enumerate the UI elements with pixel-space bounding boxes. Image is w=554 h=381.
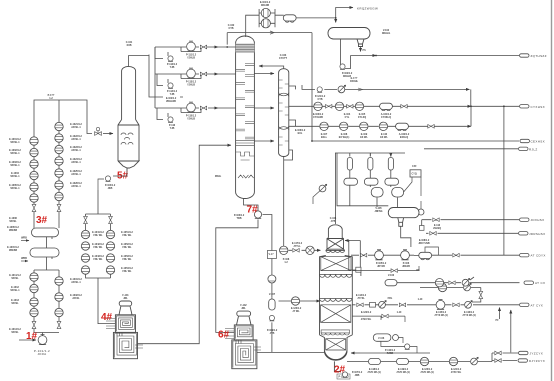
valve train A bottom xyxy=(32,321,36,328)
svg-text:KRQZWSGW: KRQZWSGW xyxy=(357,7,378,11)
svg-text:JYYX WL(1): JYYX WL(1) xyxy=(434,314,448,317)
svg-text:EXKLQ: EXKLQ xyxy=(400,136,408,139)
svg-text:7#: 7# xyxy=(247,205,259,216)
svg-text:JDEJB: JDEJB xyxy=(402,265,410,268)
svg-text:AR NL-1: AR NL-1 xyxy=(71,281,81,284)
wire line y287 top right xyxy=(420,287,481,289)
wire train row1 from stripper xyxy=(289,105,519,107)
column C-102 main tower xyxy=(236,36,255,198)
svg-text:EX WL: EX WL xyxy=(360,136,368,139)
svg-text:YJHLB: YJHLB xyxy=(187,84,195,87)
svg-text:CYL: CYL xyxy=(345,116,350,119)
valve train B bottom xyxy=(57,321,61,328)
svg-text:AR NL-1: AR NL-1 xyxy=(71,185,81,188)
svg-text:FRL WL: FRL WL xyxy=(94,234,104,237)
wire bottom product line y361 xyxy=(347,353,518,362)
svg-text:AR NL-1: AR NL-1 xyxy=(71,149,81,152)
wire line y219.7 to flag xyxy=(422,220,519,226)
exchanger train B circles xyxy=(55,122,63,130)
svg-text:FRL: FRL xyxy=(388,297,393,300)
labels train B right xyxy=(70,123,82,300)
svg-text:FRL WL: FRL WL xyxy=(94,258,104,261)
valve train A mid xyxy=(32,204,36,211)
column C-104 vacuum tower 2# xyxy=(320,225,353,372)
svg-text:3#: 3# xyxy=(36,215,48,226)
condenser drums E-111 E-112 xyxy=(371,188,403,198)
valve train B mid xyxy=(57,204,61,211)
wire column top to E-101 xyxy=(227,15,312,44)
labels steam drums xyxy=(7,217,19,252)
wire furnace6 outlet to column2 xyxy=(257,351,430,354)
pump group 3 xyxy=(155,74,236,120)
svg-text:ZQTHSZZ: ZQTHSZZ xyxy=(531,54,547,58)
air drum E-108 xyxy=(419,252,432,259)
svg-text:FRL WL: FRL WL xyxy=(123,258,133,261)
svg-text:V-107: V-107 xyxy=(269,293,276,296)
labels train A left xyxy=(9,138,21,334)
svg-text:XDLNB: XDLNB xyxy=(261,4,270,7)
svg-text:AR NL: AR NL xyxy=(72,297,80,300)
svg-text:YJHLB: YJHLB xyxy=(187,57,195,60)
junction dots xyxy=(470,105,472,107)
flag light ends xyxy=(520,54,530,57)
reflux drum V-102 xyxy=(328,28,370,47)
svg-text:JDFSG: JDFSG xyxy=(375,210,383,213)
svg-text:EXL: EXL xyxy=(298,132,303,135)
svg-text:FRL WL: FRL WL xyxy=(94,246,104,249)
drum V-108 hotwell xyxy=(373,334,391,341)
svg-text:CYB: CYB xyxy=(317,98,322,101)
svg-text:JDRSHSX: JDRSHSX xyxy=(529,232,545,236)
svg-text:JYZCYX: JYZCYX xyxy=(530,352,544,356)
wire quench line x271.9 xyxy=(263,215,272,298)
svg-text:JKB: JKB xyxy=(108,187,113,190)
svg-text:4#: 4# xyxy=(101,312,113,323)
pump P-103 7# column bottoms xyxy=(216,199,258,333)
pump P-102 reflux xyxy=(341,39,351,69)
svg-text:WRB: WRB xyxy=(21,237,27,240)
svg-text:AR NL-1: AR NL-1 xyxy=(71,161,81,164)
svg-text:CYXHSX: CYXHSX xyxy=(531,105,545,109)
wire line y316 stubs xyxy=(352,316,405,322)
svg-text:JYZC WL(1): JYZC WL(1) xyxy=(396,371,410,374)
wire line y233.3 to flag xyxy=(426,232,518,234)
wire riser x98 to split xyxy=(86,190,116,324)
wire line y149 to flag xyxy=(424,148,518,150)
svg-text:1-10: 1-10 xyxy=(397,311,402,314)
air cooler drum top xyxy=(283,15,296,22)
vertical utility line x503 xyxy=(503,106,505,255)
furnace F-101 4# xyxy=(113,301,137,359)
svg-text:AT CDYX: AT CDYX xyxy=(531,254,546,258)
svg-text:JYTLL: JYTLL xyxy=(293,245,301,248)
svg-text:PF: PF xyxy=(496,319,500,322)
svg-text:V-106: V-106 xyxy=(388,274,395,277)
svg-text:E-122/1.2: E-122/1.2 xyxy=(361,311,372,314)
wire long line y141 to flag xyxy=(312,33,519,141)
wire line y255 pumps from column2 xyxy=(351,254,519,256)
svg-text:JYZC WL: JYZC WL xyxy=(451,371,462,374)
svg-text:JSLNQ: JSLNQ xyxy=(433,227,441,230)
wire sampler connections xyxy=(404,177,421,210)
column C-101 5# flash tower xyxy=(118,66,139,172)
svg-text:ZDHLNB: ZDHLNB xyxy=(166,100,176,103)
svg-text:SR NL: SR NL xyxy=(11,331,19,334)
svg-text:YJB: YJB xyxy=(170,93,175,96)
level box small xyxy=(420,226,425,231)
side stripper C-103 triple xyxy=(279,69,289,157)
pump P-107 bottom xyxy=(342,372,347,378)
label P-101 xyxy=(34,349,50,356)
svg-text:JRL: JRL xyxy=(241,307,246,310)
wire reflux loop right of column2 neck xyxy=(345,241,361,277)
svg-text:EX WL: EX WL xyxy=(380,136,388,139)
wire drum interconnect xyxy=(34,237,59,277)
label C-101 top xyxy=(126,41,133,47)
svg-text:JYB: JYB xyxy=(270,332,275,335)
svg-text:JRL: JRL xyxy=(123,297,128,300)
pump P-104 below column5 xyxy=(98,172,127,190)
pump group 2 xyxy=(155,47,236,86)
svg-text:WRB: WRB xyxy=(21,257,27,260)
svg-text:RJLZ: RJLZ xyxy=(529,147,538,151)
labels trains C D xyxy=(92,231,133,273)
svg-text:SR NL: SR NL xyxy=(11,277,19,280)
svg-text:CYLXQ: CYLXQ xyxy=(358,116,366,119)
svg-text:JYYX WL(1): JYYX WL(1) xyxy=(462,314,476,317)
svg-text:SR NL-1: SR NL-1 xyxy=(10,152,20,155)
svg-text:AR NL-1: AR NL-1 xyxy=(71,138,81,141)
wire stripper bottoms E-117 into column2 xyxy=(284,247,321,250)
drain arrow from boot xyxy=(360,47,362,52)
wire column to stripper feeds xyxy=(254,73,274,75)
svg-text:CYCTT: CYCTT xyxy=(279,57,288,60)
steam out arrows xyxy=(21,241,29,262)
exchanger train A lower circles xyxy=(30,273,38,281)
svg-text:6#: 6# xyxy=(218,330,230,341)
svg-text:1-10: 1-10 xyxy=(418,298,423,301)
svg-text:JYZC WL(1): JYZC WL(1) xyxy=(420,371,434,374)
svg-text:YJB: YJB xyxy=(170,66,175,69)
wire vent line y270.6 xyxy=(352,266,419,271)
svg-text:ZBHL: ZBHL xyxy=(215,175,222,178)
pump P-101 1# xyxy=(38,335,47,345)
wire train row2 from column xyxy=(289,106,471,126)
svg-text:AR NL-1: AR NL-1 xyxy=(71,126,81,129)
ejector J-103 xyxy=(385,158,399,186)
wire slop line y301 into column2 xyxy=(279,300,321,302)
svg-text:CDXHL: CDXHL xyxy=(350,80,359,83)
svg-text:CYQ: CYQ xyxy=(412,173,417,176)
steam drum E-1005 upper xyxy=(32,228,59,239)
svg-text:AT CX: AT CX xyxy=(535,281,545,285)
svg-text:XXB: XXB xyxy=(127,44,132,47)
svg-text:AR NL-1: AR NL-1 xyxy=(71,173,81,176)
svg-text:PS: PS xyxy=(363,49,367,52)
wire pump P-106b right vertical small xyxy=(271,297,273,352)
svg-text:FRL WL: FRL WL xyxy=(123,246,133,249)
svg-text:ZRESB: ZRESB xyxy=(9,229,17,232)
wire products line y305 xyxy=(352,288,519,305)
svg-text:SR NL-1: SR NL-1 xyxy=(10,175,20,178)
svg-text:JYZC WL(1): JYZC WL(1) xyxy=(367,371,381,374)
svg-text:EXLL: EXLL xyxy=(321,136,328,139)
svg-text:SR NL-1: SR NL-1 xyxy=(10,141,20,144)
wire stripper overhead return xyxy=(254,66,295,247)
svg-text:JDYJB: JDYJB xyxy=(377,265,385,268)
exchanger train B lower circles xyxy=(55,277,63,285)
svg-text:JYEX WL: JYEX WL xyxy=(361,318,372,321)
instrument at column2 left xyxy=(319,184,327,192)
wire header to column 5 xyxy=(34,100,92,134)
svg-text:EX WL(1): EX WL(1) xyxy=(339,136,350,139)
svg-text:JYYXL: JYYXL xyxy=(357,297,365,300)
valve train C top xyxy=(84,216,88,223)
exchanger E-101 twin condenser xyxy=(259,9,284,27)
svg-text:SR NL-1: SR NL-1 xyxy=(10,187,20,190)
svg-text:YJB: YJB xyxy=(170,127,175,130)
svg-text:JKRA: JKRA xyxy=(37,352,46,356)
svg-text:JDB: JDB xyxy=(355,374,360,377)
svg-text:CYXKLQ: CYXKLQ xyxy=(381,116,391,119)
svg-text:JY WL: JY WL xyxy=(292,310,300,313)
svg-text:AT CYX: AT CYX xyxy=(531,303,544,307)
svg-text:TDB: TDB xyxy=(237,217,242,220)
frame border right xyxy=(551,0,553,381)
wire train A riser xyxy=(34,120,59,333)
exchanger train C circles xyxy=(81,230,89,238)
pump group 1 left of column xyxy=(149,47,236,97)
exchanger train D circles xyxy=(106,230,114,238)
svg-text:JDCYLNB: JDCYLNB xyxy=(418,242,430,245)
svg-text:FRL WL: FRL WL xyxy=(123,270,133,273)
svg-text:SR NL-1: SR NL-1 xyxy=(10,289,20,292)
furnace F-102 6# xyxy=(232,311,257,369)
wire stripper A bottoms pump line y89 xyxy=(302,85,471,106)
wire stripper draws xyxy=(284,86,296,160)
svg-text:CZF: CZF xyxy=(412,165,417,168)
wire V105 drain to pump row xyxy=(401,226,411,247)
sampler box xyxy=(410,170,421,177)
steam drum lower xyxy=(30,248,59,259)
wire hotwell loop xyxy=(381,338,417,354)
svg-text:CYXLNB: CYXLNB xyxy=(313,116,323,119)
svg-text:SR NL: SR NL xyxy=(9,220,17,223)
vacuum buffer drum V-105 xyxy=(388,208,419,227)
wire line y282.7 V-106 xyxy=(397,277,520,283)
svg-text:CEXHSX: CEXHSX xyxy=(531,140,545,144)
svg-text:FRL WL: FRL WL xyxy=(123,234,133,237)
svg-text:XDHLG: XDHLG xyxy=(382,32,391,35)
wire furnace4 outlet big loop to column C-102 xyxy=(138,145,232,344)
svg-text:SR NL: SR NL xyxy=(11,302,19,305)
wire to reflux drum xyxy=(296,8,353,23)
vacuum ejector header xyxy=(335,153,405,224)
svg-text:RJSB: RJSB xyxy=(387,352,394,355)
svg-text:YJHLB: YJHLB xyxy=(187,118,195,121)
wire loop above drum xyxy=(414,247,438,255)
ejector J-102 xyxy=(364,158,378,186)
valve train D top xyxy=(109,216,113,223)
wire stripper bottoms down xyxy=(283,156,285,247)
exchanger E-1001 train A circles xyxy=(30,137,38,145)
svg-text:1#: 1# xyxy=(26,331,38,342)
wire feed line into pump P-101 xyxy=(19,339,36,341)
svg-text:SR NL-1: SR NL-1 xyxy=(10,164,20,167)
wire col5 overhead to pump header xyxy=(129,56,149,67)
svg-text:CYB: CYB xyxy=(228,27,233,30)
svg-text:ZRESB: ZRESB xyxy=(9,249,17,252)
svg-text:DJYZCYX: DJYZCYX xyxy=(529,359,545,363)
wire vertical x510 vent xyxy=(500,308,511,353)
ejector J-101 xyxy=(344,158,358,186)
svg-text:JYB: JYB xyxy=(331,220,336,223)
svg-text:V-1?: V-1? xyxy=(269,253,275,256)
wire overhead product to right flag xyxy=(351,55,520,57)
svg-text:JDXHSX: JDXHSX xyxy=(531,218,545,222)
labels furnaces xyxy=(122,294,247,310)
svg-text:V-108: V-108 xyxy=(378,337,385,340)
control valve feed to C-101 xyxy=(95,127,102,135)
